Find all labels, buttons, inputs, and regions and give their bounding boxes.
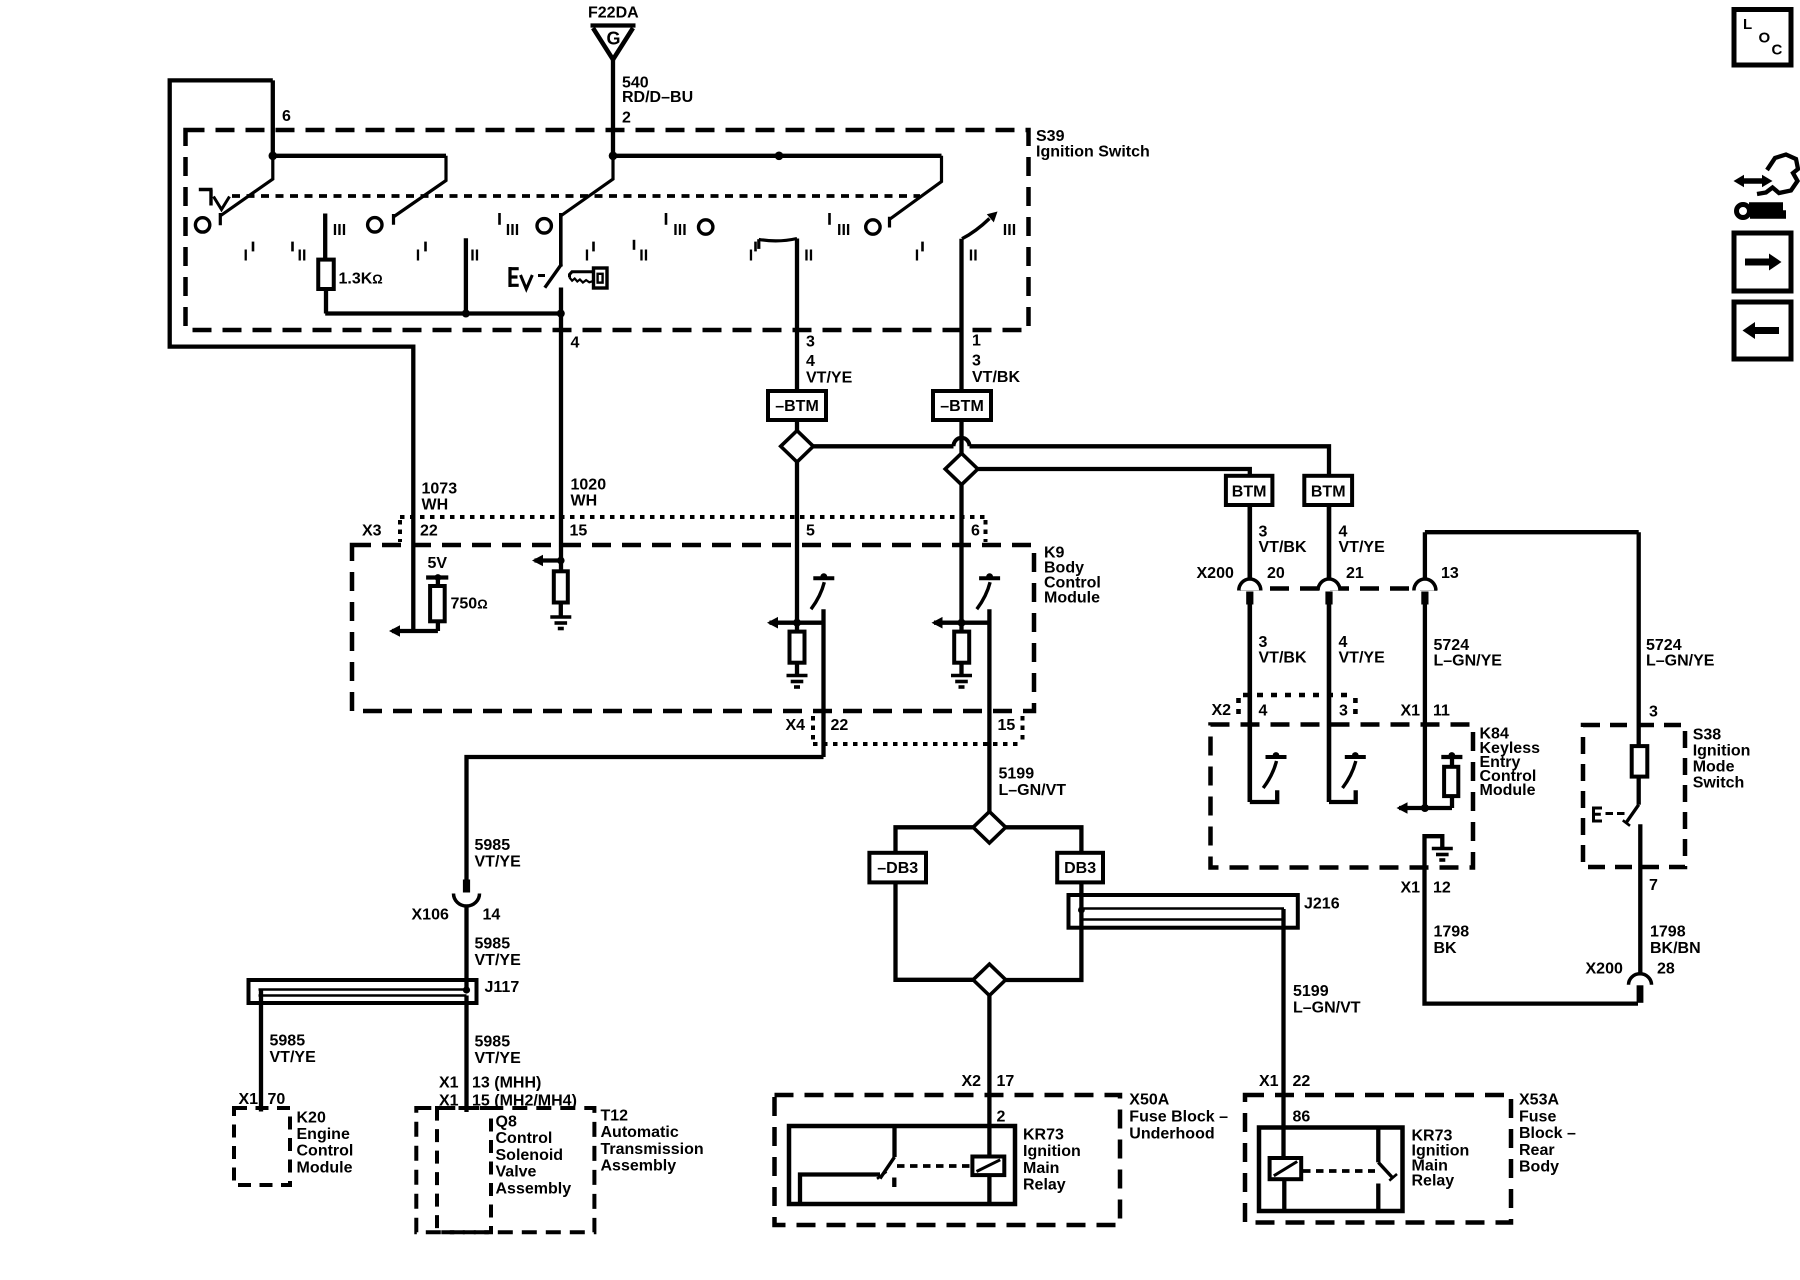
wire J117 to Q8 (5985 VT/YE) [464,996,468,1113]
svg-text:Main: Main [1023,1160,1059,1177]
wire BCM to X4 pin 22 [821,609,825,757]
svg-text:I: I [915,247,919,264]
wire diamond to -DB3 [896,827,974,853]
svg-text:70: 70 [268,1091,286,1108]
svg-text:I: I [749,247,753,264]
connector X4 dotted line [811,716,815,740]
svg-text:Module: Module [297,1159,353,1176]
node: junction pin6 wire [269,152,278,161]
steering-lock glyph at section A [199,190,213,206]
wire -BTM to diamond [795,420,799,431]
wire -DB3 down to lower diamond [896,882,974,979]
node: junction pin2 wire [609,152,618,161]
svg-text:7: 7 [1649,877,1658,894]
node: junction on S39 bottom wire [462,310,470,318]
switch arm section B (to circle B) [394,156,447,225]
svg-text:J216: J216 [1304,896,1340,913]
svg-text:III: III [837,222,850,239]
Ev glyph at key switch [510,267,519,287]
wire from S39 pin 6 loop to BCM pin 22 (circuit 1073 WH) [170,80,414,631]
svg-text:Assembly: Assembly [601,1158,677,1175]
svg-text:Mode: Mode [1693,759,1735,776]
connector code box BTM (3 VT/BK) [1226,476,1273,505]
svg-text:S38: S38 [1693,727,1722,744]
relay KR73 contact (X53A) [1376,1128,1380,1163]
svg-text:20: 20 [1267,565,1285,582]
svg-text:14: 14 [483,907,501,924]
svg-text:X4: X4 [786,717,806,734]
inline connector X200 pin 28 [1629,974,1652,985]
driver switch in BCM (pin5) [813,576,834,580]
svg-text:–BTM: –BTM [940,398,984,415]
wire J216 to X53A relay (5199 L-GN/VT) [1281,909,1285,1158]
svg-text:Ignition: Ignition [1693,743,1751,760]
svg-text:Control: Control [297,1143,354,1160]
svg-text:12: 12 [1433,880,1451,897]
S38 switch blade [1637,777,1641,805]
section B position II wire [464,238,468,313]
K84 input switch (X2-4): fixed contact and blade [1250,790,1277,802]
position ticks I II III of section E [921,242,924,252]
section E curved arm with arrowhead [962,219,990,239]
wire J117 to K20 (5985 VT/YE) [259,990,263,1112]
svg-text:13 (MHH): 13 (MHH) [472,1075,541,1092]
contact circle A of S39 [195,218,209,232]
svg-text:Ignition: Ignition [1023,1143,1081,1160]
svg-text:22: 22 [831,717,849,734]
svg-text:III: III [1003,222,1016,239]
ground symbol in BCM (pin15) [550,615,571,619]
svg-text:Fuse: Fuse [1519,1108,1556,1125]
svg-text:4: 4 [1339,634,1348,651]
svg-text:6: 6 [282,108,291,125]
svg-text:I: I [416,247,420,264]
contact circle D of S39 [699,220,713,234]
ground symbol in BCM (pin6) [951,674,972,678]
wire pin 6 into switch [271,80,275,155]
svg-text:11: 11 [1433,703,1450,720]
svg-text:Fuse Block –: Fuse Block – [1129,1109,1228,1126]
connector X200 dashed line [1240,586,1437,591]
svg-text:Switch: Switch [1693,775,1745,792]
wire switch common bus right segment from pin 2 [613,154,942,158]
fuse block rear body X53A dashed box [1245,1095,1511,1223]
svg-text:X1: X1 [1401,703,1421,720]
svg-text:BK/BN: BK/BN [1650,940,1701,957]
wire VT/BK to BTM left [978,469,1250,476]
contact circle C of S39 [537,219,551,233]
relay KR73 coil (X53A) [1270,1158,1302,1179]
resistor 750 ohm in BCM [436,578,440,587]
svg-text:3: 3 [1259,524,1268,541]
svg-text:L–GN/YE: L–GN/YE [1646,652,1715,669]
S39 internal bottom wire [325,311,561,315]
resistor 1.3K ohm in S39 [318,260,334,289]
off-page diamond (5199 upper) [973,812,1006,843]
svg-text:X1: X1 [239,1091,259,1108]
svg-text:Assembly: Assembly [496,1180,572,1197]
BCM pin6 internal: junction, arrow, resistor to ground, driver switch [958,619,966,627]
inline connector X106 [463,880,470,893]
wire 4 VT/YE from X200-21 to K84 X2-3 [1327,605,1332,803]
switch arm section A (to circle A) [220,156,272,226]
svg-text:1020: 1020 [571,477,607,494]
svg-text:17: 17 [997,1073,1015,1090]
svg-text:VT/YE: VT/YE [475,1050,522,1067]
svg-text:3: 3 [806,334,815,351]
wire 1798 BK from K84 to X200-28 loop [1425,897,1639,1004]
svg-text:X1: X1 [1259,1073,1279,1090]
svg-text:5724: 5724 [1646,637,1682,654]
engine control module K20 dashed box [234,1108,290,1185]
svg-text:750Ω: 750Ω [451,595,488,612]
BCM pin15 internal: arrow branch [535,558,562,562]
node: junction key switch and bottom wire [557,310,565,318]
relay KR73 actuation dashed line (X50A) [897,1164,972,1168]
interactive hand icon [1742,178,1764,184]
svg-text:1073: 1073 [422,481,458,498]
position ticks I II III of section D [754,242,757,252]
K84 ground (X1-12) [1425,836,1443,897]
svg-text:Relay: Relay [1023,1177,1066,1194]
svg-text:15: 15 [998,717,1016,734]
svg-text:VT/BK: VT/BK [1259,539,1307,556]
svg-text:II: II [804,247,813,264]
svg-text:BTM: BTM [1232,484,1267,501]
svg-text:II: II [969,247,978,264]
svg-text:III: III [333,222,346,239]
wire 5985 VT/YE from X4-22 to X106 [467,757,824,880]
X200 pin 20 inline connector [1239,579,1261,591]
next-page arrow box [1734,233,1791,291]
connector X3 dotted line [400,515,986,519]
fuse block underhood X50A dashed box [775,1095,1121,1225]
wire DB3 down into J216 [1006,882,1082,980]
position ticks I II III of section B [424,242,427,252]
svg-text:G: G [606,29,620,49]
wire 3 VT/BK from X200-20 to K84 X2-4 [1248,605,1253,803]
connector code box -BTM (VT/BK) [933,391,991,420]
svg-text:Automatic: Automatic [601,1124,679,1141]
section D position II hook contact [757,239,760,249]
svg-text:5199: 5199 [1293,983,1329,1000]
wire -BTM to diamond 2 [959,420,963,454]
svg-text:X2: X2 [1212,702,1232,719]
relay KR73 coil (X50A) [972,1157,1004,1176]
splice J117 [249,980,477,1003]
svg-text:Module: Module [1480,782,1536,799]
svg-text:Valve: Valve [496,1164,537,1181]
svg-text:VT/YE: VT/YE [475,854,522,871]
wire switch common bus left segment [273,154,446,158]
automatic transmission assembly T12 dashed box [416,1108,594,1232]
X200 pin 21 inline connector [1318,579,1340,591]
connector code box -DB3 [869,853,926,883]
svg-text:II: II [470,247,479,264]
ignition switch S39 dashed box [186,130,1029,330]
connector code box DB3 [1057,853,1103,883]
svg-text:RD/D–BU: RD/D–BU [622,89,693,106]
svg-text:2: 2 [622,110,631,127]
section C arm contact wire to key switch [559,213,563,267]
svg-text:II: II [639,247,648,264]
section A position III wire with resistor 1.3K [323,214,327,260]
svg-text:I: I [585,247,589,264]
svg-text:Underhood: Underhood [1129,1126,1214,1143]
svg-text:Solenoid: Solenoid [496,1147,564,1164]
svg-text:3: 3 [1649,704,1658,721]
svg-text:4: 4 [806,353,815,370]
svg-text:DB3: DB3 [1064,860,1096,877]
svg-text:O: O [1759,30,1771,47]
svg-text:VT/YE: VT/YE [1339,539,1386,556]
svg-text:5985: 5985 [475,1034,511,1051]
S38 lower contact to pin 7 [1638,824,1642,973]
svg-text:Q8: Q8 [496,1114,517,1131]
svg-text:F22DA: F22DA [588,5,639,22]
BCM pin22 internal: arrow to other circuits [392,629,438,633]
svg-text:BTM: BTM [1311,484,1346,501]
previous-page arrow box [1734,302,1791,359]
wire key switch to S39 pin 4 (circuit 1020 WH) [559,288,563,572]
svg-text:KR73: KR73 [1023,1127,1064,1144]
wire coil to relay box bottom (X53A) [1282,1179,1286,1211]
svg-text:X106: X106 [412,907,449,924]
svg-text:T12: T12 [601,1108,629,1125]
wire BCM to X4 pin 15 [987,609,991,812]
switch arm section C (to circle C) [561,156,613,216]
mechanical coupling dotted line in S39 [232,194,920,198]
wire VT/YE to BTM right, with hop over VT/BK wire [813,444,953,448]
svg-text:3: 3 [1339,703,1348,720]
svg-text:1.3KΩ: 1.3KΩ [339,271,383,288]
svg-text:3: 3 [1259,634,1268,651]
svg-text:J117: J117 [485,979,520,996]
wire diamond to DB3 [1006,827,1082,853]
svg-text:5V: 5V [428,555,448,572]
svg-text:Transmission: Transmission [601,1141,704,1158]
off-page diamond (5199 lower) [973,964,1006,995]
resistor in S38 [1632,746,1648,777]
ground symbol in BCM (pin5) [787,674,808,678]
ignition main relay KR73 box (in X53A) [1259,1128,1403,1212]
svg-text:C: C [1772,42,1783,59]
svg-text:X3: X3 [362,523,382,540]
wire BTM to X200 pin 20 [1248,505,1253,580]
svg-text:VT/YE: VT/YE [806,370,853,387]
svg-text:3: 3 [972,353,981,370]
relay KR73 actuation dashed line (X53A) [1303,1169,1375,1173]
control solenoid valve assembly Q8 dashed box [437,1108,491,1232]
svg-text:1798: 1798 [1650,924,1686,941]
wire BTM to X200 pin 21 [1327,505,1332,580]
connector code box BTM (4 VT/YE) [1304,476,1352,505]
svg-text:Rear: Rear [1519,1142,1555,1159]
svg-text:5985: 5985 [475,936,511,953]
svg-text:Relay: Relay [1412,1173,1455,1190]
svg-text:VT/BK: VT/BK [1259,650,1307,667]
contact circle B of S39 [368,218,382,232]
svg-text:III: III [506,222,519,239]
svg-text:K20: K20 [297,1109,326,1126]
svg-text:Block –: Block – [1519,1125,1576,1142]
svg-text:28: 28 [1657,961,1675,978]
connector X2 dotted line [1236,698,1241,719]
svg-text:–DB3: –DB3 [877,860,918,877]
svg-text:X2: X2 [962,1073,982,1090]
driver switch in BCM (pin6) [979,576,1000,580]
svg-text:WH: WH [571,493,598,510]
svg-text:X200: X200 [1586,961,1623,978]
position ticks I II III of section C [592,242,595,252]
contact circle E of S39 [866,220,880,234]
section D arm (to circle D) [890,156,942,228]
svg-text:4: 4 [571,335,580,352]
K84 pin 11 internal: junction, arrow, pull-up resistor [1421,804,1429,812]
BCM pin5 internal: junction, arrow, resistor to ground, driver switch [793,619,801,627]
ignition mode switch S38 dashed box [1583,725,1685,867]
wire 5985 below X106 [464,906,468,990]
off-page diamond (VT/BK) [945,453,978,484]
svg-text:6: 6 [971,523,980,540]
svg-text:22: 22 [1293,1073,1311,1090]
svg-text:X200: X200 [1197,565,1234,582]
splice J216 [1069,895,1298,928]
svg-text:13: 13 [1441,565,1459,582]
wire lower diamond to X50A relay coil (X2-17) [987,996,991,1157]
svg-text:22: 22 [420,523,438,540]
K84 input switch (X2-3): fixed contact and blade [1329,790,1356,802]
wire S39 section E to pin 1/3 (VT/BK) [959,239,963,391]
svg-text:VT/BK: VT/BK [972,369,1020,386]
svg-text:VT/YE: VT/YE [270,1049,317,1066]
wire 5724 L-GN/YE from X200-13 to K84 X1-11 [1423,605,1427,809]
wire diamond 2 to BCM pin 6 [959,485,963,623]
svg-text:–BTM: –BTM [775,398,819,415]
svg-text:L–GN/YE: L–GN/YE [1434,652,1503,669]
svg-text:Ignition Switch: Ignition Switch [1036,143,1150,160]
position ticks I II of section A [252,242,255,252]
svg-text:L: L [1743,16,1752,33]
svg-text:5199: 5199 [999,766,1035,783]
wire S39 section D to pin 3/4 (VT/YE) [795,239,799,392]
svg-text:86: 86 [1293,1109,1311,1126]
svg-text:X1: X1 [1401,880,1421,897]
relay KR73 contact (X50A) [892,1126,896,1157]
svg-text:5985: 5985 [475,837,511,854]
LOC legend box [1734,10,1791,66]
body control module K9 dashed box [352,545,1034,711]
svg-text:Engine: Engine [297,1126,350,1143]
svg-text:WH: WH [422,497,449,514]
svg-text:X50A: X50A [1129,1092,1169,1109]
key-operated switch blade in S39 [545,264,562,288]
svg-text:4: 4 [1259,703,1268,720]
svg-text:III: III [673,222,686,239]
node: junction section D arm [775,152,784,161]
svg-text:II: II [298,247,307,264]
resistor to ground in BCM (pin15) [554,571,568,602]
svg-text:4: 4 [1339,524,1348,541]
wire S38 pin 3 [1637,532,1641,746]
svg-text:15: 15 [570,523,588,540]
svg-text:X53A: X53A [1519,1092,1559,1109]
svg-text:5724: 5724 [1434,637,1470,654]
svg-text:1798: 1798 [1434,924,1470,941]
svg-text:VT/YE: VT/YE [1339,650,1386,667]
svg-text:2: 2 [997,1109,1006,1126]
svg-text:I: I [244,247,248,264]
BCM 5V supply tick [426,575,448,579]
svg-text:VT/YE: VT/YE [475,952,522,969]
keyless entry control module K84 dashed box [1211,725,1474,868]
svg-text:X1: X1 [439,1075,459,1092]
svg-text:5985: 5985 [270,1033,306,1050]
svg-text:Body: Body [1519,1159,1559,1176]
svg-text:L–GN/VT: L–GN/VT [999,782,1067,799]
svg-text:BK: BK [1434,940,1458,957]
wire coil to relay box bottom (X50A) [987,1175,991,1204]
top wire 5724 L-GN/YE to S38 [1425,530,1639,534]
svg-text:Module: Module [1044,590,1100,607]
wire diamond to BCM pin 5 [795,462,799,623]
wire 540 RD/D-BU from F22DA to S39 pin 2 [611,59,615,156]
svg-text:Control: Control [496,1130,553,1147]
ignition main relay KR73 box (in X50A) [789,1126,1015,1204]
X200 pin 13 inline connector [1414,579,1436,591]
wire 5724 to X200 pin 13 [1423,532,1427,580]
svg-text:21: 21 [1346,565,1364,582]
svg-text:5: 5 [806,523,815,540]
E glyph at S38 switch [1594,807,1603,823]
off-page diamond (VT/YE) [781,431,814,462]
key icon [594,268,608,288]
svg-text:1: 1 [972,333,981,350]
connector code box -BTM (VT/YE) [768,391,826,420]
svg-text:L–GN/VT: L–GN/VT [1293,1000,1361,1017]
